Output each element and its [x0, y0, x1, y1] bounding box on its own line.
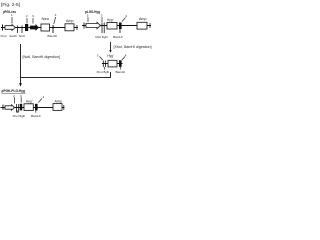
- label pPGK-neo: [3, 10, 17, 14]
- label pLG5-Hyg: [85, 10, 100, 14]
- svg-text:[Fig. 2-5]: [Fig. 2-5]: [1, 2, 20, 7]
- svg-text:pPGK-neo: pPGK-neo: [3, 10, 17, 14]
- Hyg open box pLG5-Hyg: [107, 23, 117, 30]
- black box BamHI region pLG5-Hyg: [119, 23, 122, 34]
- product small black box: [20, 104, 22, 111]
- product PGK promoter open arrow: [5, 105, 15, 110]
- Neo open box: [41, 24, 50, 31]
- black box pA: [25, 24, 28, 31]
- Hyg fragment line: [102, 63, 123, 65]
- neo gene black arrow: [30, 24, 39, 31]
- fragment below ticks: [104, 67, 120, 70]
- svg-text:XhoI: XhoI: [13, 114, 19, 118]
- digestion text right: [114, 45, 152, 49]
- product leader to number 4: [38, 95, 44, 103]
- svg-text:Hyg: Hyg: [107, 18, 113, 22]
- leader to number 4 on pPGK-neo: [54, 13, 57, 24]
- site label XhoI: [0, 34, 6, 38]
- wire: pLG5-Hyg backbone line: [82, 25, 151, 27]
- wire: pPGK-neo backbone line: [1, 27, 78, 29]
- Amp open box pLG5-Hyg: [137, 22, 147, 29]
- product primer 3 number and leader: [20, 94, 22, 103]
- product site label BamHI: [31, 114, 41, 118]
- product Hyg open box: [24, 104, 33, 111]
- Amp box label pLG5-Hyg: [139, 17, 147, 21]
- elbow wire from fragment down and left: [21, 72, 111, 78]
- left end tick pLG5-Hyg: [83, 23, 85, 29]
- svg-text:NotI: NotI: [19, 34, 25, 38]
- site label NotI: [19, 34, 25, 38]
- product black box BamHI: [35, 104, 38, 111]
- product site labels XhoI BglII: [13, 114, 26, 118]
- svg-text:[NotI, BamHI digestion]: [NotI, BamHI digestion]: [23, 55, 61, 59]
- site labels XhoI BglII pLG5-Hyg: [95, 35, 108, 39]
- Amp box label: [66, 19, 74, 23]
- promoter open arrow pLG5-Hyg: [86, 22, 101, 28]
- fragment right black box BamHI: [119, 60, 122, 67]
- Neo box label: [42, 17, 50, 21]
- svg-text:BamHI: BamHI: [31, 114, 41, 118]
- Hyg box label pLG5-Hyg: [107, 18, 114, 22]
- right end tick pPGK-neo: [76, 25, 78, 30]
- svg-text:XhoI: XhoI: [95, 35, 101, 39]
- fragment left ticks XhoI BglII: [103, 61, 105, 68]
- svg-text:EcoRI: EcoRI: [10, 34, 17, 38]
- svg-text:BglII: BglII: [20, 114, 26, 118]
- svg-text:BamHI: BamHI: [116, 70, 126, 74]
- product ticks XhoI BglII: [17, 104, 19, 113]
- site label BamHI: [48, 34, 58, 38]
- svg-text:pPGK-PLG-Hyg: pPGK-PLG-Hyg: [2, 89, 26, 93]
- Amp open box pPGK-neo: [65, 24, 74, 31]
- svg-text:BglII: BglII: [104, 70, 110, 74]
- long vertical flow line from pPGK-neo: [20, 44, 22, 84]
- svg-text:BamHI: BamHI: [48, 34, 58, 38]
- product primer 2 number and leader: [13, 94, 15, 104]
- product Hyg label: [26, 99, 33, 103]
- svg-text:Hyg: Hyg: [107, 54, 113, 58]
- wire: product backbone line: [1, 107, 65, 109]
- svg-text:BamHI: BamHI: [113, 35, 123, 39]
- restriction site BamHI tick with dot: [53, 25, 55, 33]
- background: [0, 0, 153, 120]
- short down arrow from pLG5-Hyg: [109, 42, 111, 53]
- product left end tick: [2, 105, 4, 111]
- label pPGK-PLG-Hyg underlined: [2, 89, 26, 93]
- site label EcoRI: [10, 34, 17, 38]
- digestion text left: [23, 55, 61, 59]
- primer 3 number and leader on pLG5-Hyg: [101, 13, 103, 22]
- primer 1 number and leader: [11, 13, 13, 23]
- down arrowhead into product: [19, 83, 22, 86]
- node: left end tick XhoI: [2, 25, 4, 31]
- fragment leader to number 3: [97, 53, 103, 60]
- leader to number 4 pLG5-Hyg: [122, 14, 127, 22]
- primer 2 number and leader: [26, 14, 28, 23]
- restriction tick NotI: [21, 26, 23, 34]
- svg-text:Neo: Neo: [42, 17, 50, 21]
- fragment site label BamHI: [116, 70, 126, 74]
- PGK promoter open arrow: [5, 25, 16, 31]
- svg-text:XhoI: XhoI: [0, 34, 6, 38]
- restriction tick EcoRI: [17, 26, 19, 34]
- product below ticks: [18, 111, 36, 113]
- svg-text:Amp: Amp: [66, 19, 74, 23]
- product right end tick: [63, 105, 65, 110]
- svg-text:Hyg: Hyg: [26, 99, 32, 103]
- svg-text:Amp: Amp: [139, 17, 147, 21]
- primer 5 number and leader: [87, 13, 89, 22]
- product Amp label: [55, 100, 63, 104]
- fragment Hyg label: [107, 54, 114, 58]
- right end tick pLG5-Hyg: [149, 23, 151, 28]
- fragment Hyg open box: [108, 60, 117, 67]
- product Amp open box: [53, 104, 62, 111]
- svg-text:XhoI: XhoI: [97, 70, 103, 74]
- primer 3 number and leader: [32, 14, 34, 23]
- site label BamHI pLG5-Hyg: [113, 35, 123, 39]
- svg-text:BglII: BglII: [102, 35, 108, 39]
- figure caption [Fig. 2-5]: [1, 2, 20, 7]
- svg-text:Amp: Amp: [55, 100, 63, 104]
- restriction ticks XhoI BglII on pLG5-Hyg: [102, 23, 104, 34]
- svg-text:[XhoI, BamHI digestion]: [XhoI, BamHI digestion]: [114, 45, 152, 49]
- fragment site labels XhoI BglII: [97, 70, 110, 74]
- fragment leader to number 4: [122, 53, 127, 60]
